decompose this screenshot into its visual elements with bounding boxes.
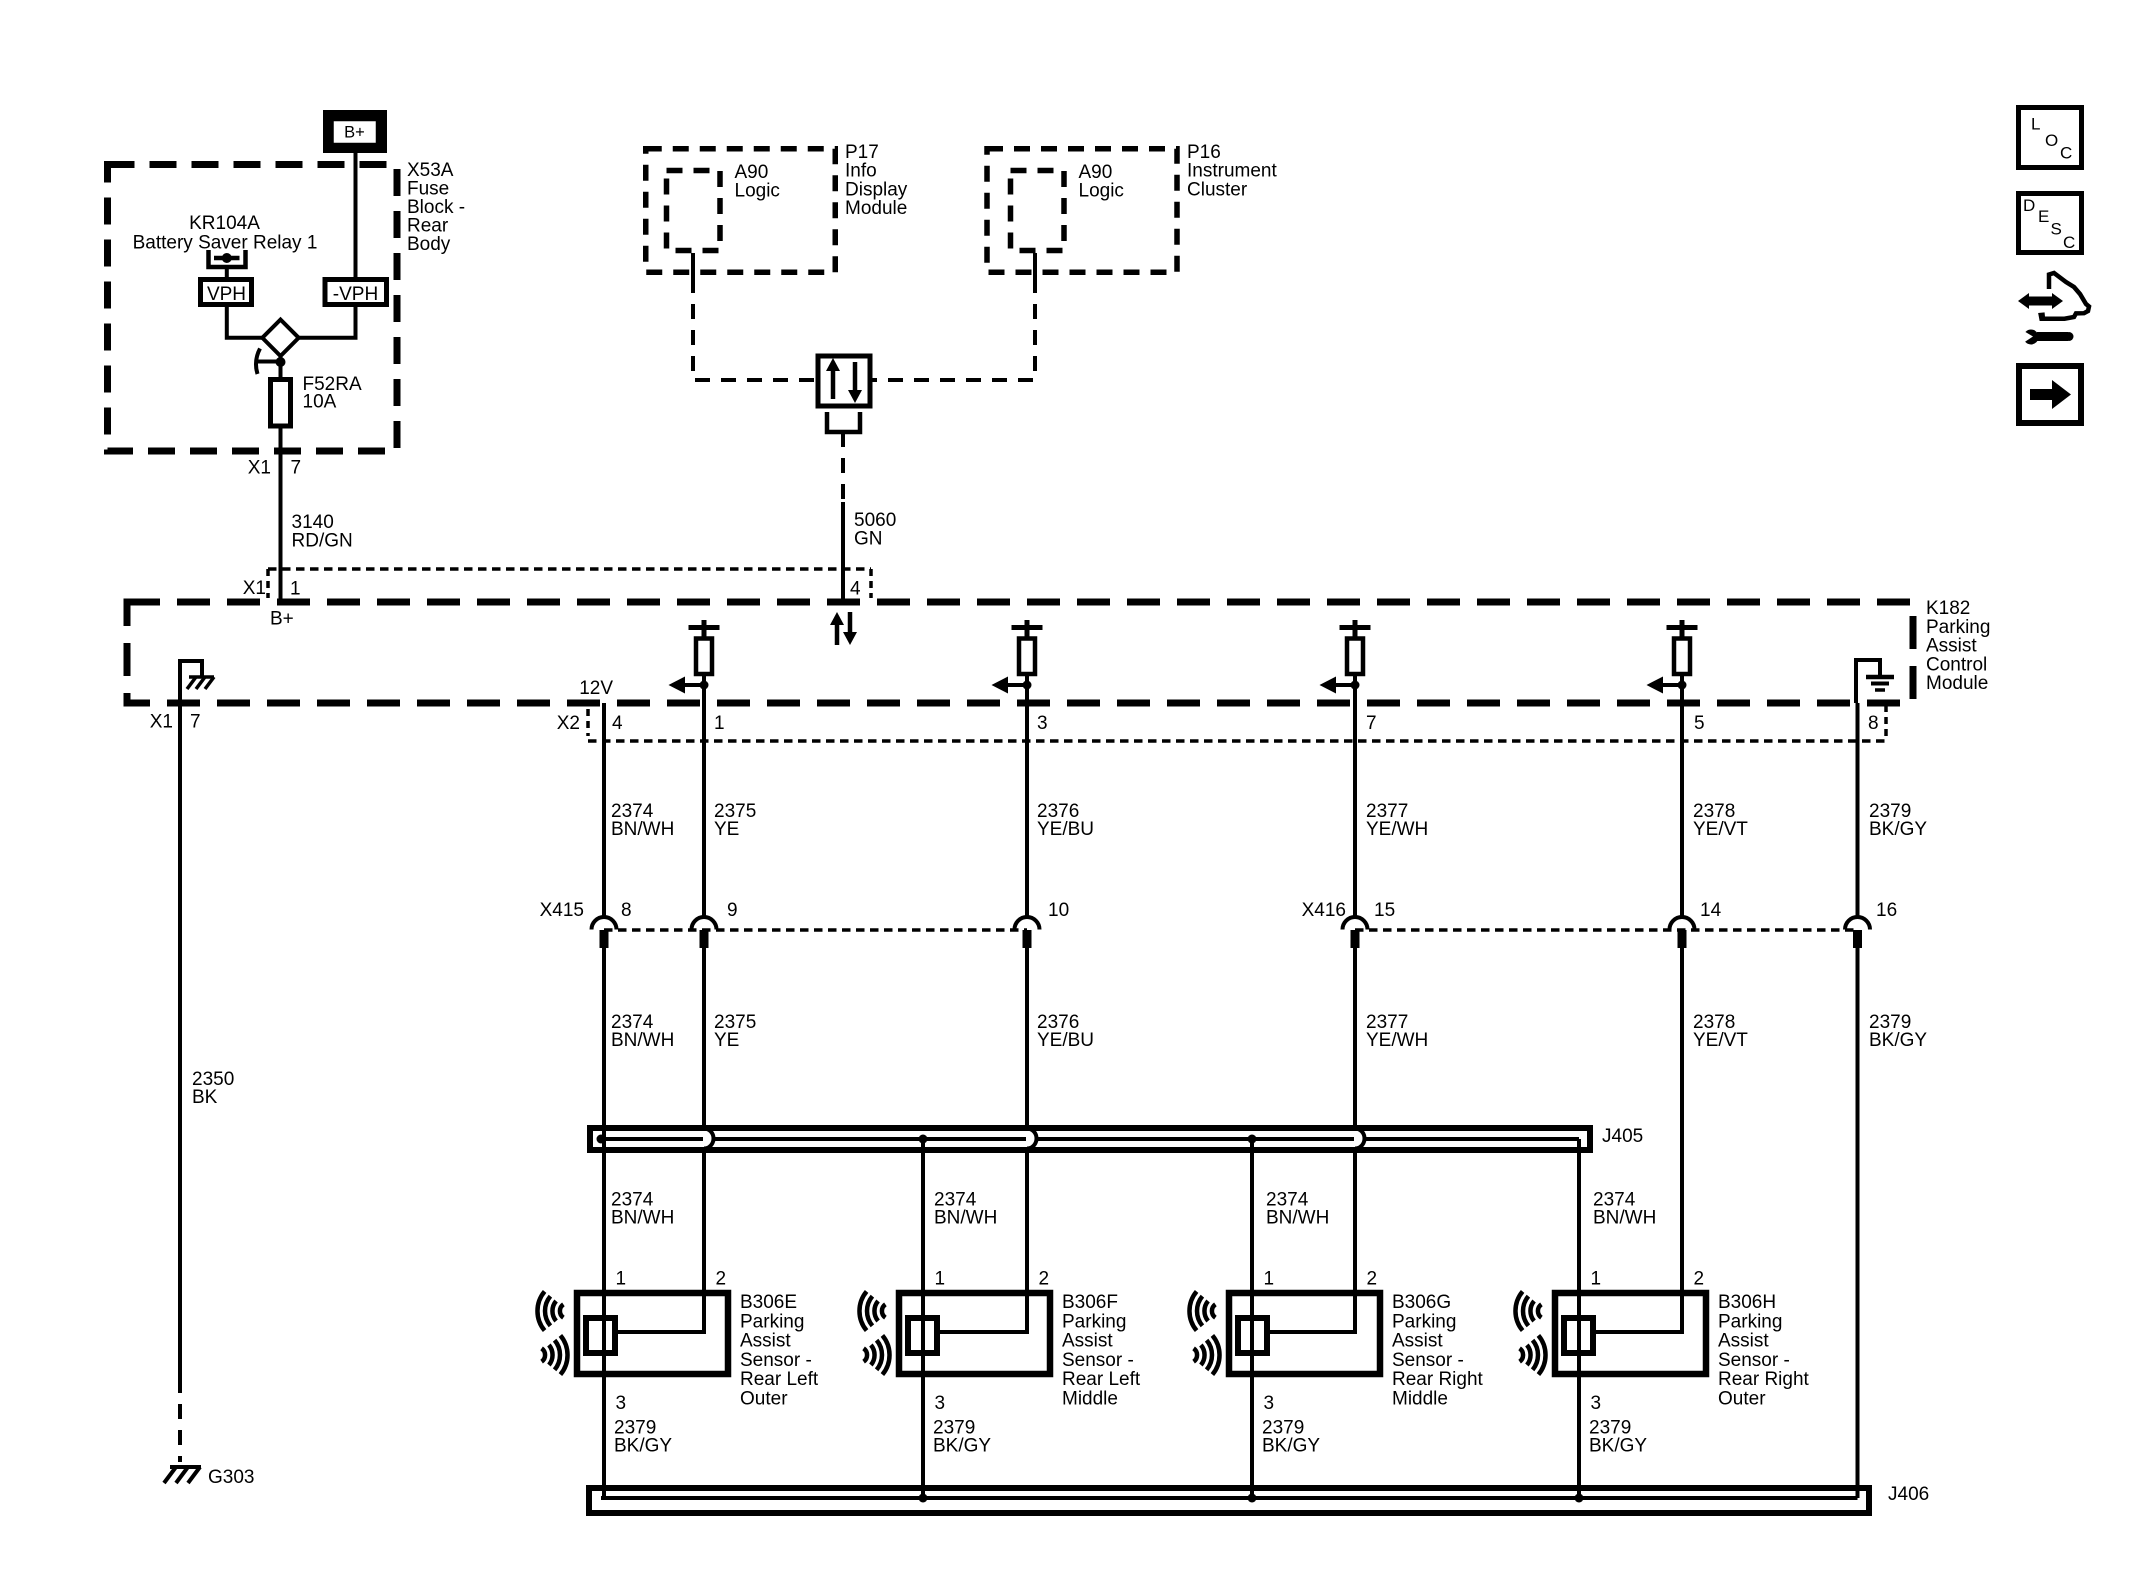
fuse block X53A box — [108, 165, 398, 452]
svg-text:BN/WH: BN/WH — [1266, 1208, 1329, 1229]
icon DESC box — [2019, 194, 2082, 253]
module K182 parking assist control box — [127, 602, 1913, 703]
internal chassis ground (K182 left) — [180, 661, 202, 703]
relay KR104A coil — [209, 250, 246, 267]
svg-text:Middle: Middle — [1392, 1389, 1448, 1410]
sensor B306G transducer square — [1238, 1318, 1267, 1353]
relay switch diamond — [262, 320, 298, 356]
inline connector terminal pin X415-8 — [592, 917, 617, 930]
svg-text:3: 3 — [616, 1393, 627, 1414]
ultrasonic waves upper (B306G) — [1189, 1291, 1215, 1330]
svg-text:2: 2 — [1367, 1269, 1378, 1290]
wire 2376 J405 to sensor B306F pin 2 — [1025, 1149, 1029, 1291]
svg-text:3: 3 — [1591, 1393, 1602, 1414]
wire 5060 GN solid to K182 X1-4 — [841, 502, 845, 604]
wire 2374 branch to sensor B306F pin 1 — [921, 1139, 925, 1290]
svg-text:X415: X415 — [540, 900, 584, 921]
svg-text:9: 9 — [727, 900, 738, 921]
splice pack J406 bus — [601, 1496, 1858, 1500]
svg-text:BN/WH: BN/WH — [611, 1030, 674, 1051]
connector staple below gateway — [827, 412, 860, 432]
sensor driver resistor (K182) 1 — [702, 620, 707, 639]
svg-text:-VPH: -VPH — [333, 284, 378, 305]
svg-text:X1: X1 — [150, 712, 173, 733]
svg-text:Battery Saver Relay 1: Battery Saver Relay 1 — [133, 232, 318, 253]
sensor B306F internal wire pin2 — [940, 1290, 1027, 1332]
icon direction arrow — [2027, 297, 2054, 306]
connector X2 line on K182 — [588, 739, 1886, 743]
svg-text:Cluster: Cluster — [1187, 179, 1248, 200]
svg-text:BK/GY: BK/GY — [1589, 1436, 1647, 1457]
icon vehicle outline — [2041, 273, 2089, 319]
wire 2374 J405 to sensor B306E pin 1 — [602, 1139, 606, 1290]
svg-text:BN/WH: BN/WH — [611, 1208, 674, 1229]
svg-text:YE/BU: YE/BU — [1037, 819, 1094, 840]
splice dot J405-2 — [919, 1135, 928, 1144]
svg-text:8: 8 — [1868, 713, 1879, 734]
svg-text:14: 14 — [1700, 900, 1722, 921]
wire 12V/2374 K182 to X415-8 — [602, 703, 606, 917]
svg-text:BK/GY: BK/GY — [1262, 1436, 1320, 1457]
svg-text:1: 1 — [616, 1269, 627, 1290]
svg-text:X2: X2 — [557, 713, 580, 734]
svg-text:RD/GN: RD/GN — [292, 530, 353, 551]
svg-text:C: C — [2063, 233, 2075, 252]
svg-text:1: 1 — [290, 579, 301, 600]
wire 2377 K182 to X416-15 — [1353, 703, 1357, 917]
inline connector terminal pin X416-14 — [1670, 917, 1695, 930]
svg-text:Parking: Parking — [1062, 1311, 1126, 1332]
A90 logic box (P16) — [1011, 171, 1065, 251]
sensor B306H internal wire pin2 — [1596, 1290, 1682, 1332]
wire 2375 X415 to J405 hop — [702, 948, 706, 1129]
svg-text:Module: Module — [1926, 673, 1988, 694]
wire hop 2376 over J405 — [1027, 1129, 1037, 1149]
svg-text:J405: J405 — [1602, 1126, 1643, 1147]
svg-text:1: 1 — [1264, 1269, 1275, 1290]
wire switch to fuse F52RA — [279, 356, 283, 380]
svg-text:O: O — [2045, 131, 2058, 150]
splice dot J405-1 — [597, 1135, 606, 1144]
parking assist sensor B306F box — [899, 1293, 1050, 1374]
wire A90 P17 to serial gateway — [691, 253, 695, 278]
inline connector terminal pin X416-15 — [1343, 917, 1368, 930]
svg-text:Sensor -: Sensor - — [1718, 1350, 1790, 1371]
sensor driver resistor (K182) 2 — [1025, 620, 1030, 639]
svg-text:10: 10 — [1048, 900, 1069, 921]
svg-text:YE: YE — [714, 819, 739, 840]
wire 2378 K182 to X416-14 — [1680, 703, 1684, 917]
sensor B306F internal wire pin1 — [921, 1290, 925, 1377]
wire B+ to -VPH — [354, 153, 358, 277]
svg-text:Assist: Assist — [1392, 1331, 1443, 1352]
sensor B306H transducer square — [1564, 1318, 1593, 1353]
svg-text:YE/VT: YE/VT — [1693, 1030, 1748, 1051]
fuse F52RA — [271, 380, 291, 427]
serial gateway up arrow — [831, 370, 836, 399]
svg-text:BK/GY: BK/GY — [1869, 819, 1927, 840]
svg-text:B306H: B306H — [1718, 1292, 1776, 1313]
ultrasonic waves upper (B306F) — [859, 1291, 885, 1330]
svg-text:S: S — [2051, 220, 2062, 239]
svg-text:2: 2 — [716, 1269, 727, 1290]
svg-text:YE/WH: YE/WH — [1366, 819, 1428, 840]
ultrasonic waves lower (B306E) — [542, 1335, 568, 1374]
svg-text:3: 3 — [1037, 713, 1048, 734]
svg-text:D: D — [2023, 196, 2035, 215]
svg-text:BK/GY: BK/GY — [1869, 1030, 1927, 1051]
parking assist sensor B306H box — [1555, 1293, 1706, 1374]
wire 2379 X416 to J406 — [1856, 948, 1860, 1485]
svg-text:Rear Right: Rear Right — [1392, 1369, 1484, 1390]
icon LOC box — [2019, 108, 2082, 168]
svg-text:J406: J406 — [1888, 1484, 1929, 1505]
svg-text:3: 3 — [935, 1393, 946, 1414]
svg-text:BK/GY: BK/GY — [933, 1436, 991, 1457]
sensor driver resistor (K182) 4 — [1680, 620, 1685, 639]
relay terminal VPH box — [201, 280, 252, 305]
svg-text:Sensor -: Sensor - — [1392, 1350, 1464, 1371]
svg-text:B+: B+ — [344, 124, 365, 142]
wire 2379 B306H pin 3 to J406 — [1577, 1377, 1581, 1498]
splice pack J405 box — [590, 1128, 1590, 1150]
svg-text:YE/BU: YE/BU — [1037, 1030, 1094, 1051]
wire 2378 X416 to sensor B306H pin 2 — [1680, 948, 1684, 1290]
relay switch contact arc — [256, 349, 260, 375]
svg-text:E: E — [2038, 207, 2049, 226]
svg-text:Rear Right: Rear Right — [1718, 1369, 1810, 1390]
svg-text:BK/GY: BK/GY — [614, 1436, 672, 1457]
svg-text:B306F: B306F — [1062, 1292, 1118, 1313]
wire hop 2375 over J405 — [704, 1129, 714, 1149]
svg-text:BN/WH: BN/WH — [611, 819, 674, 840]
svg-text:5: 5 — [1694, 713, 1705, 734]
svg-text:12V: 12V — [579, 678, 613, 699]
svg-text:Rear Left: Rear Left — [740, 1369, 819, 1390]
svg-text:Assist: Assist — [1062, 1331, 1113, 1352]
svg-text:Logic: Logic — [1079, 181, 1124, 202]
serial gateway down arrow — [853, 362, 858, 391]
icon wrench — [2024, 330, 2039, 345]
wire 2379 B306G pin 3 to J406 — [1250, 1377, 1254, 1498]
svg-text:B306E: B306E — [740, 1292, 797, 1313]
wire 2379 B306F pin 3 to J406 — [921, 1377, 925, 1498]
connector X415 line — [604, 928, 1027, 932]
sensor driver resistor (K182) 3 — [1353, 620, 1358, 639]
wire 2375 K182 to X415-9 — [702, 703, 706, 917]
sensor B306E transducer square — [586, 1318, 615, 1353]
wire 2376 K182 to X415-10 — [1025, 703, 1029, 917]
ultrasonic waves lower (B306H) — [1520, 1335, 1546, 1374]
ultrasonic waves upper (B306E) — [537, 1291, 563, 1330]
svg-text:Outer: Outer — [1718, 1389, 1766, 1410]
svg-text:C: C — [2060, 144, 2072, 163]
svg-text:BN/WH: BN/WH — [1593, 1208, 1656, 1229]
relay terminal -VPH box — [325, 280, 387, 305]
wire hop 2377 over J405 — [1355, 1129, 1365, 1149]
svg-text:7: 7 — [1366, 713, 1377, 734]
svg-text:L: L — [2031, 115, 2040, 134]
sensor B306H internal wire pin1 — [1577, 1290, 1581, 1377]
ultrasonic waves lower (B306G) — [1194, 1335, 1220, 1374]
svg-text:Middle: Middle — [1062, 1389, 1118, 1410]
svg-text:Module: Module — [845, 198, 907, 219]
svg-text:BK: BK — [192, 1087, 218, 1108]
svg-text:Parking: Parking — [740, 1311, 804, 1332]
sensor B306G internal wire pin1 — [1250, 1290, 1254, 1377]
wire VPH to relay switch — [227, 307, 262, 338]
wire -VPH to relay switch — [299, 307, 356, 338]
internal signal ground (K182 right) — [1856, 660, 1880, 703]
wire A90 P16 to serial gateway — [1033, 253, 1037, 278]
svg-text:Sensor -: Sensor - — [1062, 1350, 1134, 1371]
svg-text:BN/WH: BN/WH — [934, 1208, 997, 1229]
wire 2376 X415 to J405 hop — [1025, 948, 1029, 1129]
svg-text:2: 2 — [1039, 1269, 1050, 1290]
svg-text:X1: X1 — [243, 578, 266, 599]
svg-text:GN: GN — [854, 528, 883, 549]
svg-text:8: 8 — [621, 900, 632, 921]
svg-text:7: 7 — [190, 712, 201, 733]
serial data arrows inside K182 — [835, 625, 840, 645]
svg-text:15: 15 — [1374, 900, 1395, 921]
svg-text:3: 3 — [1264, 1393, 1275, 1414]
wire 2350 BK K182 to G303 — [178, 703, 182, 1378]
svg-text:1: 1 — [714, 713, 725, 734]
svg-text:2: 2 — [1694, 1269, 1705, 1290]
splice dot J406-1 — [919, 1494, 928, 1503]
splice dot J405-3 — [1248, 1135, 1257, 1144]
svg-text:10A: 10A — [303, 392, 337, 413]
module P16 instrument cluster box — [987, 149, 1177, 273]
splice dot J406-2 — [1248, 1494, 1257, 1503]
svg-text:1: 1 — [935, 1269, 946, 1290]
wire 2379 K182 to X416-16 — [1856, 703, 1860, 917]
sensor B306E internal wire pin2 — [618, 1290, 704, 1332]
wire 2374 X415 to J405 — [602, 948, 606, 1139]
serial data gateway box — [818, 356, 870, 406]
svg-text:VPH: VPH — [207, 284, 246, 305]
svg-text:Assist: Assist — [1718, 1331, 1769, 1352]
ground G303 symbol — [170, 1465, 201, 1469]
wire 2379 B306E pin 3 to J406 — [602, 1377, 606, 1498]
svg-text:X416: X416 — [1302, 900, 1346, 921]
sensor driver arrow (K182) 2 — [1008, 683, 1027, 687]
splice pack J406 right riser — [1856, 1483, 1860, 1498]
sensor B306F transducer square — [908, 1318, 937, 1353]
wire 5060 GN dashed — [841, 432, 845, 502]
svg-text:7: 7 — [291, 458, 302, 479]
svg-text:16: 16 — [1876, 900, 1897, 921]
inline connector terminal pin X415-9 — [692, 917, 717, 930]
svg-text:Parking: Parking — [1718, 1311, 1782, 1332]
splice pack J406 box — [589, 1488, 1869, 1513]
connector X416 line — [1355, 928, 1858, 932]
svg-text:YE: YE — [714, 1030, 739, 1051]
svg-text:B306G: B306G — [1392, 1292, 1451, 1313]
sensor B306E internal wire pin1 — [602, 1290, 606, 1377]
svg-text:Parking: Parking — [1392, 1311, 1456, 1332]
sensor driver arrow (K182) 4 — [1663, 683, 1682, 687]
svg-text:Assist: Assist — [740, 1331, 791, 1352]
svg-text:YE/VT: YE/VT — [1693, 819, 1748, 840]
svg-text:Sensor -: Sensor - — [740, 1350, 812, 1371]
sensor driver arrow (K182) 3 — [1336, 683, 1355, 687]
wire 2374 branch to sensor B306G pin 1 — [1250, 1139, 1254, 1290]
connector X1 line on K182 — [268, 567, 871, 571]
inline connector terminal pin X416-16 — [1845, 917, 1870, 930]
svg-text:1: 1 — [1591, 1269, 1602, 1290]
ultrasonic waves lower (B306F) — [864, 1335, 890, 1374]
sensor B306G internal wire pin2 — [1270, 1290, 1355, 1332]
inline connector terminal pin X415-10 — [1015, 917, 1040, 930]
svg-text:KR104A: KR104A — [189, 213, 260, 234]
svg-text:4: 4 — [850, 579, 861, 600]
svg-text:4: 4 — [612, 713, 623, 734]
icon go-to arrow box — [2019, 366, 2081, 423]
battery terminal B+ — [328, 115, 383, 149]
wire 2375 J405 to sensor B306E pin 2 — [702, 1149, 706, 1291]
svg-text:X1: X1 — [248, 458, 271, 479]
splice J405 branch down right end — [1577, 1139, 1581, 1290]
A90 logic box (P17) — [667, 171, 721, 251]
wire 3140 fuse to K182 X1-1 — [279, 428, 283, 604]
parking assist sensor B306G box — [1229, 1293, 1380, 1374]
svg-text:B+: B+ — [270, 609, 294, 630]
wire 2377 J405 to sensor B306G pin 2 — [1353, 1149, 1357, 1291]
svg-text:G303: G303 — [208, 1467, 254, 1488]
svg-text:Rear Left: Rear Left — [1062, 1369, 1141, 1390]
ultrasonic waves upper (B306H) — [1515, 1291, 1541, 1330]
parking assist sensor B306E box — [577, 1293, 728, 1374]
module P17 info display box — [646, 149, 836, 273]
splice pack J405 bus — [601, 1137, 703, 1141]
svg-text:Outer: Outer — [740, 1389, 788, 1410]
splice dot J406-3 — [1575, 1494, 1584, 1503]
wire 2377 X416 to J405 hop — [1353, 948, 1357, 1129]
svg-text:YE/WH: YE/WH — [1366, 1030, 1428, 1051]
svg-text:Body: Body — [407, 234, 451, 255]
sensor driver arrow (K182) 1 — [685, 683, 704, 687]
svg-text:Logic: Logic — [735, 181, 780, 202]
